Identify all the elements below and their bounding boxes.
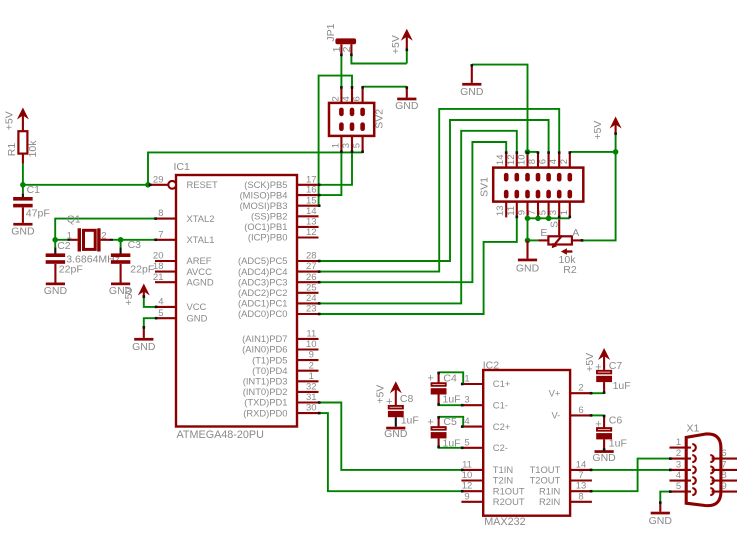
svg-text:8: 8 <box>578 491 583 502</box>
svg-text:8: 8 <box>527 159 538 164</box>
svg-text:3: 3 <box>676 459 681 470</box>
wire PC4 pin27 to SV1 pin4 <box>319 109 560 272</box>
svg-text:10: 10 <box>517 155 528 166</box>
svg-text:13: 13 <box>576 481 587 492</box>
svg-text:C2+: C2+ <box>493 421 511 432</box>
svg-text:AVCC: AVCC <box>187 266 213 277</box>
svg-text:12: 12 <box>306 227 317 238</box>
svg-text:23: 23 <box>306 304 317 315</box>
ground below C8 <box>384 427 408 440</box>
wire PC1 pin24 to SV1 pin12 <box>319 131 517 304</box>
svg-text:47pF: 47pF <box>26 207 50 219</box>
svg-text:(INT1)PD3: (INT1)PD3 <box>243 376 288 387</box>
svg-text:V-: V- <box>551 410 560 421</box>
svg-text:SV2: SV2 <box>374 109 386 129</box>
svg-text:GND: GND <box>11 226 35 238</box>
svg-text:(ADC4)PC4: (ADC4)PC4 <box>238 266 288 277</box>
svg-text:2: 2 <box>330 96 341 101</box>
svg-text:7: 7 <box>527 210 538 215</box>
svg-text:2: 2 <box>309 360 314 371</box>
svg-text:1: 1 <box>559 210 570 215</box>
connector X1 (DB9) <box>670 423 738 506</box>
svg-text:(MOSI)PB3: (MOSI)PB3 <box>240 200 288 211</box>
svg-text:V+: V+ <box>549 387 561 398</box>
svg-text:7: 7 <box>578 470 583 481</box>
svg-text:(T1)PD5: (T1)PD5 <box>252 354 287 365</box>
ground below C6 <box>592 450 616 464</box>
wire to R2 E pin <box>528 239 539 241</box>
svg-text:11: 11 <box>306 329 316 340</box>
svg-text:6: 6 <box>578 405 583 416</box>
svg-text:(SS)PB2: (SS)PB2 <box>251 211 287 222</box>
svg-text:10: 10 <box>306 339 317 350</box>
wire XTAL2 net <box>55 219 155 240</box>
wire SV2 pin3 to SCK pin17 <box>319 152 352 184</box>
svg-text:12: 12 <box>506 155 517 166</box>
trimmer potentiometer R2 10k <box>538 219 582 275</box>
ground below C2 <box>44 264 68 297</box>
svg-text:X1: X1 <box>687 423 700 435</box>
wire SV2 pin6 to ground <box>363 86 407 88</box>
svg-text:+5V: +5V <box>584 353 596 372</box>
wire PC3 pin26 to SV1 pin14 <box>319 142 507 282</box>
svg-text:(ADC5)PC5: (ADC5)PC5 <box>238 255 288 266</box>
wire RESET net: junction to pin29 and up-over to SV2 pin 5 <box>23 152 363 184</box>
power +5V symbol near SV1 <box>592 117 622 152</box>
wire R1IN to X1 pin2 <box>592 459 670 492</box>
svg-text:C8: C8 <box>400 393 414 405</box>
capacitor C8 1uF (polarized) <box>386 393 419 427</box>
svg-text:1uF: 1uF <box>613 380 631 392</box>
power +5V symbol at C7 <box>584 348 610 372</box>
svg-text:9: 9 <box>721 481 726 492</box>
svg-text:6: 6 <box>538 159 549 164</box>
node junction at ground/E line <box>525 238 531 244</box>
svg-text:26: 26 <box>306 272 317 283</box>
svg-text:AGND: AGND <box>187 276 214 287</box>
ground below pin 5 <box>132 328 156 353</box>
svg-text:1: 1 <box>464 374 469 385</box>
ground above SV1 <box>460 65 484 99</box>
svg-text:C5: C5 <box>443 416 457 428</box>
svg-text:2: 2 <box>341 46 353 52</box>
svg-text:9: 9 <box>517 210 528 215</box>
svg-text:28: 28 <box>306 251 317 262</box>
svg-text:C2-: C2- <box>493 442 508 453</box>
svg-text:GND: GND <box>395 100 419 112</box>
node junction pin9 <box>525 216 531 222</box>
capacitor C6 1uF (polarized) <box>592 414 627 450</box>
ground below C1 <box>11 207 35 237</box>
svg-text:4: 4 <box>464 416 469 427</box>
node XTAL1/C3/Q1 junction <box>118 237 124 243</box>
svg-text:R2IN: R2IN <box>539 496 560 507</box>
ground below SV1 <box>516 240 540 274</box>
svg-text:T2OUT: T2OUT <box>530 475 561 486</box>
svg-text:XTAL2: XTAL2 <box>187 213 215 224</box>
svg-text:ATMEGA48-20PU: ATMEGA48-20PU <box>177 429 264 441</box>
svg-text:4: 4 <box>548 159 559 164</box>
svg-text:8: 8 <box>721 470 726 481</box>
capacitor C3 22pF <box>111 239 154 276</box>
svg-text:6: 6 <box>352 96 363 101</box>
svg-text:2: 2 <box>578 383 583 394</box>
svg-text:22pF: 22pF <box>59 263 83 275</box>
svg-text:1uF: 1uF <box>443 394 461 406</box>
svg-text:14: 14 <box>576 459 587 470</box>
svg-text:R1IN: R1IN <box>539 485 560 496</box>
svg-text:21: 21 <box>153 272 164 283</box>
svg-text:18: 18 <box>153 261 164 272</box>
svg-text:(TXD)PD1: (TXD)PD1 <box>244 397 287 408</box>
svg-text:+: + <box>595 419 601 431</box>
svg-text:GND: GND <box>384 428 408 440</box>
node RESET junction at R1/C1 <box>20 182 26 188</box>
svg-text:C1: C1 <box>27 184 41 196</box>
svg-text:VCC: VCC <box>187 301 207 312</box>
capacitor C1 47pF <box>13 184 50 220</box>
svg-text:31: 31 <box>306 392 317 403</box>
svg-text:(INT0)PD2: (INT0)PD2 <box>243 386 288 397</box>
svg-text:SV1: SV1 <box>478 177 490 197</box>
svg-text:14: 14 <box>306 206 317 217</box>
connector SV1 (header 2x7) <box>478 152 583 218</box>
svg-text:9: 9 <box>309 350 314 361</box>
svg-text:+: + <box>386 396 392 408</box>
wire R1 to RESET node <box>22 164 24 185</box>
svg-text:8: 8 <box>158 208 163 219</box>
svg-text:5: 5 <box>352 143 363 148</box>
svg-text:R1: R1 <box>6 143 18 157</box>
svg-text:11: 11 <box>506 206 517 216</box>
svg-text:R1OUT: R1OUT <box>493 485 525 496</box>
node junction at pin29 <box>145 182 151 188</box>
svg-text:25: 25 <box>306 282 317 293</box>
svg-text:A: A <box>572 227 579 239</box>
svg-text:(OC1)PB1: (OC1)PB1 <box>244 221 287 232</box>
svg-text:14: 14 <box>495 155 506 166</box>
svg-text:GND: GND <box>44 285 68 297</box>
svg-text:13: 13 <box>495 206 506 217</box>
svg-text:1: 1 <box>330 143 341 148</box>
wire +5V to VCC <box>144 296 156 307</box>
wire ground to SV1 pins 10 and 8 <box>472 65 538 152</box>
svg-text:GND: GND <box>187 312 208 323</box>
svg-text:2: 2 <box>101 231 106 242</box>
capacitor C7 1uF (polarized) <box>592 360 631 393</box>
connector SV2 (ISP header 2x3) <box>329 87 386 153</box>
svg-text:E: E <box>540 227 547 239</box>
svg-text:7: 7 <box>158 229 163 240</box>
svg-text:22pF: 22pF <box>130 263 154 275</box>
svg-text:30: 30 <box>306 403 317 414</box>
wire T1OUT to X1 pin3 <box>592 469 670 471</box>
svg-text:C2: C2 <box>57 240 71 252</box>
svg-text:T2IN: T2IN <box>493 475 513 486</box>
power +5V symbol near JP1 <box>390 29 413 64</box>
svg-text:32: 32 <box>306 382 317 393</box>
svg-text:IC2: IC2 <box>483 359 500 371</box>
wire pin9 column down to ground line <box>527 218 529 240</box>
svg-text:+5V: +5V <box>592 121 604 140</box>
ground below X1 <box>649 503 673 527</box>
svg-text:2: 2 <box>559 159 570 164</box>
svg-text:10: 10 <box>462 470 473 481</box>
svg-text:C1-: C1- <box>493 399 508 410</box>
svg-text:(MISO)PB4: (MISO)PB4 <box>240 189 288 200</box>
wire JP1 pin1 to SV2 pin2 <box>340 54 342 86</box>
wire SV1 pins 1,3,5,7,9 bus <box>528 217 570 219</box>
wire-to-pin junction ticks <box>143 49 672 504</box>
svg-text:(RXD)PD0: (RXD)PD0 <box>243 407 287 418</box>
power +5V symbol at C8 <box>375 381 402 405</box>
svg-text:(T0)PD4: (T0)PD4 <box>252 365 287 376</box>
svg-text:C6: C6 <box>609 414 623 426</box>
node junction SV1 pin10 <box>525 149 531 155</box>
node XTAL2/C2/Q1 junction <box>52 237 58 243</box>
svg-text:1: 1 <box>676 437 681 448</box>
svg-text:3: 3 <box>464 395 469 406</box>
power +5V symbol at VCC pin 4 <box>123 284 150 306</box>
svg-text:6: 6 <box>721 448 726 459</box>
power +5V symbol (top left) <box>3 108 29 132</box>
node junction +5V branch <box>613 149 619 155</box>
svg-text:15: 15 <box>306 195 317 206</box>
wire SV2 pin4 to MOSI pin15 <box>319 76 352 206</box>
svg-text:(ADC3)PC3: (ADC3)PC3 <box>238 276 288 287</box>
svg-text:AREF: AREF <box>187 255 212 266</box>
microcontroller IC1 ATMEGA48-20PU <box>148 161 319 441</box>
svg-text:(ADC0)PC0: (ADC0)PC0 <box>238 308 288 319</box>
ground near SV2 <box>395 87 419 113</box>
wire SV2 pin1 to MISO pin16 <box>319 152 342 195</box>
svg-text:GND: GND <box>132 341 156 353</box>
crystal Q1 3.6864MHz <box>55 214 120 266</box>
svg-text:5: 5 <box>676 481 681 492</box>
svg-text:11: 11 <box>462 459 472 470</box>
IC2 MAX232 level converter <box>461 359 592 528</box>
svg-text:9: 9 <box>464 491 469 502</box>
svg-text:(ADC2)PC2: (ADC2)PC2 <box>238 287 288 298</box>
svg-text:GND: GND <box>460 86 484 98</box>
svg-text:Q1: Q1 <box>67 214 81 226</box>
wire RXD pin30 to R1OUT <box>319 413 462 491</box>
svg-text:1uF: 1uF <box>609 438 627 450</box>
svg-text:5: 5 <box>538 210 549 215</box>
wire PC5 pin28 to SV1 pin6 <box>319 120 549 261</box>
svg-text:MAX232: MAX232 <box>484 516 525 528</box>
svg-text:+: + <box>427 416 433 428</box>
svg-text:13: 13 <box>306 217 317 228</box>
svg-text:R2: R2 <box>563 264 577 276</box>
svg-text:S: S <box>549 221 560 228</box>
svg-text:XTAL1: XTAL1 <box>187 234 215 245</box>
capacitor C2 22pF <box>46 240 83 276</box>
svg-text:T1IN: T1IN <box>493 464 513 475</box>
wire XTAL1 net <box>113 239 155 241</box>
node junction pin5 <box>546 216 552 222</box>
svg-text:10k: 10k <box>27 140 39 158</box>
svg-text:16: 16 <box>306 185 317 196</box>
svg-text:2: 2 <box>676 448 681 459</box>
wire TXD pin31 to T1IN <box>319 403 462 470</box>
wire GND pin 5 <box>144 318 156 328</box>
svg-text:T1OUT: T1OUT <box>530 464 561 475</box>
wire JP1 pin2 to +5V <box>351 54 406 63</box>
svg-text:27: 27 <box>306 261 317 272</box>
svg-text:+5V: +5V <box>123 287 135 306</box>
svg-text:RESET: RESET <box>187 179 219 190</box>
capacitor C5 1uF (polarized) <box>427 416 463 449</box>
svg-text:GND: GND <box>516 263 540 275</box>
svg-text:1: 1 <box>309 371 314 382</box>
svg-text:+5V: +5V <box>390 35 402 54</box>
node junction pin7 <box>535 216 541 222</box>
svg-text:5: 5 <box>464 437 469 448</box>
svg-text:24: 24 <box>306 293 317 304</box>
svg-text:3: 3 <box>548 210 559 215</box>
svg-text:+5V: +5V <box>3 111 15 130</box>
svg-text:R2OUT: R2OUT <box>493 496 525 507</box>
svg-text:(ICP)PB0: (ICP)PB0 <box>248 232 288 243</box>
svg-text:4: 4 <box>158 297 163 308</box>
svg-text:1uF: 1uF <box>401 415 419 427</box>
capacitor C4 1uF (polarized) <box>427 372 463 405</box>
svg-text:5: 5 <box>158 308 163 319</box>
wire +5V to SV1 pin2 and down to R2.A <box>570 152 616 241</box>
svg-text:4: 4 <box>676 470 681 481</box>
svg-text:7: 7 <box>721 459 726 470</box>
svg-text:(ADC1)PC1: (ADC1)PC1 <box>238 298 288 309</box>
svg-text:(AIN0)PD6: (AIN0)PD6 <box>242 344 287 355</box>
svg-text:+5V: +5V <box>375 385 387 404</box>
wire X1 pin5 to ground <box>660 492 669 503</box>
resistor R1 10k <box>6 131 39 163</box>
svg-text:(AIN1)PD7: (AIN1)PD7 <box>242 333 287 344</box>
svg-text:C7: C7 <box>609 360 623 372</box>
svg-text:4: 4 <box>341 96 352 101</box>
svg-text:+: + <box>427 372 433 384</box>
svg-text:C3: C3 <box>128 239 142 251</box>
svg-text:20: 20 <box>153 251 164 262</box>
svg-text:C1+: C1+ <box>493 378 511 389</box>
svg-text:C4: C4 <box>443 372 457 384</box>
wire PC0 pin23 to SV1 pin11 <box>319 217 517 314</box>
jumper JP1 <box>325 23 356 54</box>
svg-text:29: 29 <box>153 174 164 185</box>
svg-text:3: 3 <box>341 143 352 148</box>
ground below C3 <box>109 264 133 297</box>
svg-text:IC1: IC1 <box>174 161 191 173</box>
svg-text:GND: GND <box>649 515 673 527</box>
svg-text:JP1: JP1 <box>325 23 337 41</box>
svg-text:1uF: 1uF <box>443 438 461 450</box>
svg-text:+: + <box>595 361 601 373</box>
svg-text:GND: GND <box>592 452 616 464</box>
